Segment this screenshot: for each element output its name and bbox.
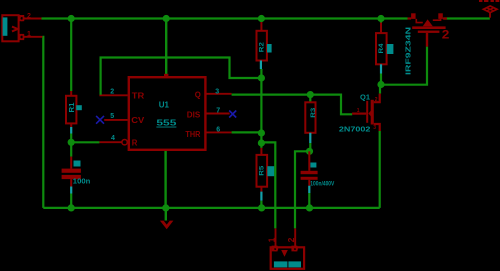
gate bar — [366, 101, 368, 123]
cyan pin segment below R4 — [380, 64, 382, 73]
junction dot R4 / Q1 drain / Q2 gate wire — [377, 81, 384, 88]
svg-text:6: 6 — [216, 126, 220, 133]
power flag PWR_FLAG — [479, 0, 499, 18]
arrow — [368, 111, 371, 117]
transistor Q2 PMOS — [404, 13, 450, 75]
arrow — [423, 19, 433, 26]
pin 4 R stub with bubble — [99, 141, 121, 143]
svg-text:2N7002: 2N7002 — [339, 126, 371, 133]
zigzag to channel — [416, 19, 423, 23]
no-connect X on pin 5 CV — [96, 116, 104, 124]
source lead — [374, 124, 380, 131]
svg-text:DIS: DIS — [187, 110, 201, 119]
junction dot C1 bottom / GND rail — [68, 204, 75, 211]
svg-text:2: 2 — [27, 13, 31, 20]
wire rail to R4 top — [380, 19, 382, 23]
svg-text:1: 1 — [357, 108, 360, 114]
svg-text:2: 2 — [442, 29, 450, 41]
junction dot rail at R1 column — [68, 15, 75, 22]
pin 3 Q stub — [206, 93, 231, 95]
wire motor pin1 from column tap — [261, 142, 275, 228]
pin 5 CV stub — [104, 119, 127, 121]
wire left vertical from P1 pin 1 — [41, 37, 44, 208]
left contact bar — [411, 13, 416, 19]
pin 1 stub of P1 — [24, 36, 42, 38]
right lead — [443, 17, 447, 19]
svg-text:3: 3 — [373, 125, 376, 131]
svg-text:R3: R3 — [310, 107, 317, 117]
svg-text:R2: R2 — [258, 42, 265, 52]
wire TR feedback loop — [101, 58, 262, 95]
gate lead — [352, 112, 366, 114]
capacitor C1 — [62, 157, 91, 194]
transistor Q1 2N7002 — [339, 94, 380, 134]
wire THR to column — [232, 131, 262, 133]
junction dot R1 / pin4 wire / C1 — [68, 139, 75, 146]
right contact bar — [438, 13, 443, 19]
resistor R5 (bottom of middle column) — [257, 148, 275, 201]
svg-text:TR: TR — [132, 91, 145, 100]
wire R5 to GND rail — [260, 201, 262, 208]
wire motor pin2 from junction — [295, 151, 310, 228]
wire from rail down to R1 — [70, 19, 72, 92]
resistor R2 (top of middle column) — [257, 22, 272, 69]
value MOTOR blocks — [274, 261, 288, 267]
svg-text:R4: R4 — [378, 43, 385, 53]
wire C1 to GND rail — [70, 194, 72, 208]
junction dot rail at R2 column — [258, 15, 265, 22]
wire top V+ rail right section — [444, 17, 490, 19]
right link — [433, 19, 441, 20]
wire junction to Q2 gate — [381, 47, 427, 85]
junction dot R5 bottom GND rail — [258, 204, 265, 211]
gate lead down — [426, 33, 428, 47]
left lead — [408, 17, 412, 19]
drain lead — [374, 94, 380, 103]
svg-text:R: R — [132, 139, 138, 148]
resistor R4 — [376, 23, 393, 74]
pin 2 TR stub — [99, 94, 127, 96]
junction dot GND rail at 555 column — [162, 204, 169, 211]
svg-text:2: 2 — [110, 88, 114, 95]
channel bar — [412, 26, 445, 29]
capacitor C2 — [301, 151, 335, 193]
cyan pin segment below R1 — [70, 127, 72, 134]
channel bar — [371, 100, 374, 125]
pin 1 stub — [275, 228, 277, 246]
junction dot rail at R4 column — [377, 15, 384, 22]
svg-text:1: 1 — [27, 31, 31, 38]
junction dot Q output at R3 top — [307, 91, 314, 98]
svg-text:U1: U1 — [159, 100, 170, 109]
wire rail to R2 top — [260, 19, 262, 23]
svg-text:2: 2 — [286, 237, 296, 242]
wire 555 GND from chip bottom to rail — [164, 151, 166, 208]
wire C2 to GND rail — [308, 193, 310, 208]
cyan pin segment below R5 — [260, 192, 262, 201]
svg-text:1: 1 — [267, 237, 277, 242]
svg-text:5: 5 — [110, 113, 114, 120]
junction dot rail at 555 column — [163, 15, 170, 22]
junction dot TR loop on R column — [258, 74, 265, 81]
polarity notch — [281, 250, 288, 257]
gate bar — [418, 31, 440, 33]
wire junction down to Q1 drain — [379, 85, 381, 94]
wire R1 to junction — [70, 134, 72, 143]
wire R3 bottom to snubber junction — [309, 143, 311, 151]
wire Q junction down to R3 — [309, 95, 311, 103]
cyan pin segment below R2 — [260, 61, 262, 70]
svg-text:4: 4 — [111, 135, 115, 142]
wire Q1 source to GND rail — [379, 131, 381, 208]
svg-text:THR: THR — [185, 130, 200, 139]
wire pin4 R to R1 junction — [71, 141, 99, 143]
svg-text:7: 7 — [216, 107, 220, 114]
svg-text:3: 3 — [215, 89, 219, 96]
svg-text:Q1: Q1 — [360, 94, 370, 101]
tiny red pin mark at chip top — [164, 74, 168, 77]
cyan pin segment below C1 — [70, 187, 72, 194]
cyan pin segment below C2 — [308, 186, 310, 193]
svg-text:R5: R5 — [258, 165, 265, 175]
no-connect X on pin 7 DIS — [229, 111, 236, 118]
svg-text:IRF9Z34N: IRF9Z34N — [404, 27, 413, 75]
op-amp timer U1 555 — [99, 74, 231, 150]
pin 2 stub of P1 — [24, 18, 42, 20]
resistor R3 — [305, 102, 317, 143]
svg-text:2: 2 — [375, 97, 378, 103]
junction dot motor wire tap — [258, 139, 265, 146]
svg-text:R1: R1 — [69, 102, 76, 112]
cyan pin segment below R3 — [309, 133, 311, 143]
wire 555 VCC from rail to chip top — [165, 19, 167, 77]
pin 2 stub — [294, 228, 296, 246]
junction dot C2 bottom GND rail — [306, 204, 313, 211]
wire top V+ rail left section — [42, 17, 408, 19]
wire R2 bottom through junctions — [260, 69, 262, 148]
pin bumps — [272, 246, 276, 250]
svg-text:555: 555 — [156, 118, 176, 128]
junction dot R3 / C2 / motor pin2 — [306, 148, 313, 155]
connector P2 MOTOR — [267, 228, 305, 268]
box — [271, 247, 304, 268]
wire junction to C1 — [70, 142, 72, 156]
wire bottom GND rail — [43, 207, 379, 209]
pin 6 THR stub — [206, 131, 231, 133]
svg-text:100n/400V: 100n/400V — [310, 181, 334, 187]
ground symbol — [160, 208, 174, 229]
pin 7 DIS stub — [206, 113, 229, 115]
wire R4 bottom to junction — [380, 74, 382, 85]
connector P1 — [2, 13, 42, 41]
svg-text:CV: CV — [131, 116, 145, 125]
wire Q output to gate network — [232, 95, 353, 115]
svg-text:100n: 100n — [73, 178, 91, 185]
svg-text:Q: Q — [195, 91, 201, 100]
junction dot THR tap — [258, 129, 265, 136]
resistor R1 — [66, 91, 82, 134]
